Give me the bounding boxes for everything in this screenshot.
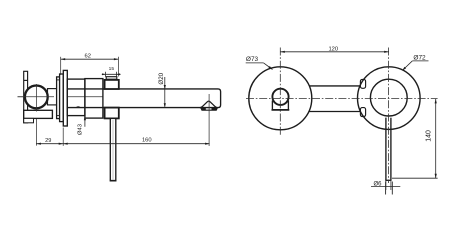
extension line at wall flange [62,128,64,146]
handle lever blade [24,71,28,123]
escutcheon plate [57,77,60,119]
centerline vertical (knob axis / dim-29 extension) [35,84,37,146]
connecting body bar top [309,85,360,87]
spout body Ø20 (long horizontal tube with rounded tip) [67,89,220,108]
dimension Ø6 at tube bottom [385,180,387,190]
middle plate [60,74,64,122]
aerator centerline / dim-160 extension [208,94,210,146]
centerline horizontal (body axis) [18,96,104,98]
mini collar ring on top [106,77,117,80]
knob stem [48,89,57,105]
svg-text:Ø73: Ø73 [246,56,259,63]
wall flange [63,70,67,126]
handle base foot [24,118,34,122]
spout drop boss (top half) [105,80,119,89]
svg-text:120: 120 [328,47,338,53]
arrows dim 29 [36,143,41,145]
drop rod bottom edge [110,180,116,182]
small bump detail on spout bottom line [76,106,80,109]
Ø20 leader with arrows [164,77,166,107]
aerator ring (dark band) [200,108,218,111]
svg-text:160: 160 [142,138,152,144]
svg-text:62: 62 [84,53,90,59]
dimension 62 [61,58,119,60]
front plate circle Ø72 (right) [358,67,421,130]
svg-text:Ø6: Ø6 [374,182,383,188]
handle knob front circle [272,89,288,105]
dimension 120 [280,51,388,53]
knob base bucket [272,101,288,110]
horizontal centerline through both circles [246,98,438,100]
aerator tent outline [200,101,218,108]
svg-text:140: 140 [425,130,432,142]
front plate circle Ø73 (left) [249,67,312,130]
spout tube front [385,118,387,181]
lower mounting tab on right circle [360,108,365,117]
blade top tab line [24,79,28,81]
svg-text:29: 29 [45,138,51,144]
knob cross line horizontal [18,96,55,98]
connecting body bar bottom [309,111,360,113]
vertical centerline left circle [279,48,281,137]
svg-text:15: 15 [109,66,115,72]
arrows dim 160 [63,143,67,145]
svg-text:Ø43: Ø43 [78,124,84,135]
vertical centerline right circle / tube [388,48,390,184]
handle base block under knob [24,110,53,118]
knob cross line vertical [35,85,37,112]
svg-text:Ø20: Ø20 [158,72,165,84]
mixer barrel A [67,79,85,116]
aerator insert window [205,108,212,110]
mixer barrel B [85,79,103,119]
dimension 29 / 160 baseline [36,143,209,145]
dim 140 bottom extension [392,177,438,179]
dimension 140 [435,99,437,178]
spout drop boss (bottom half) [105,108,119,119]
spout tube bottom edge [385,179,391,181]
inner ring of right plate [370,79,407,116]
left mounting tab on right circle [360,79,365,88]
handle knob circle [25,86,48,109]
drop rod centerline [112,120,114,180]
drop rod [110,118,116,180]
dimension 15 [102,73,121,75]
